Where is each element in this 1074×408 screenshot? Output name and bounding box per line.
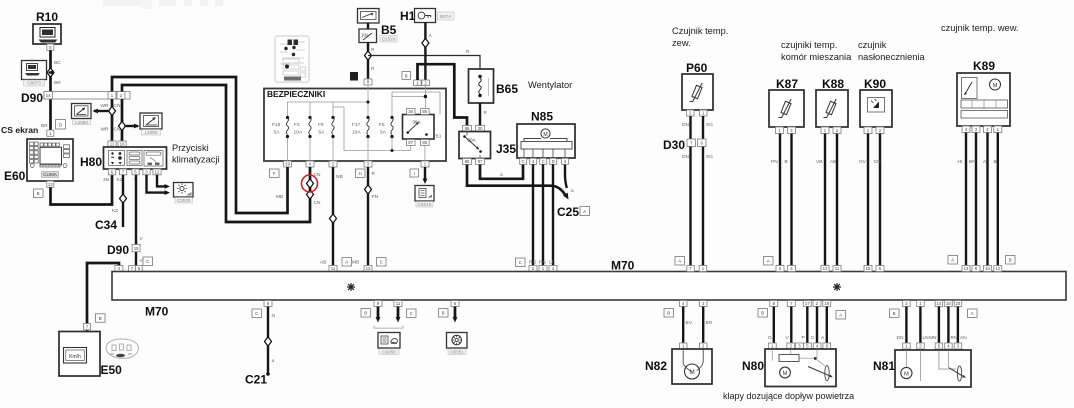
pin 7 of H80 xyxy=(119,169,126,175)
connector D90 pin 15 xyxy=(107,243,140,257)
connector H tag xyxy=(356,169,366,178)
wire branch to connector C8073 xyxy=(48,70,54,75)
svg-text:czujniki temp.: czujniki temp. xyxy=(781,40,837,50)
pin 1 of P60 xyxy=(700,110,708,116)
svg-text:87: 87 xyxy=(478,159,483,164)
connector C tag xyxy=(252,309,262,318)
connector C tag xyxy=(516,258,526,267)
svg-text:86: 86 xyxy=(465,126,470,131)
pin 5 of H80 xyxy=(132,169,139,175)
wire B65 to J35 pin30 xyxy=(479,103,481,126)
pin 8 on fuse box top xyxy=(364,79,372,85)
svg-text:GR: GR xyxy=(874,159,882,165)
svg-text:N80: N80 xyxy=(742,359,764,373)
wire fuse box pin1 to J35 pin 86 xyxy=(418,64,468,125)
wire K90 pin2 to M70 xyxy=(879,134,881,266)
wire B5 to fuse box xyxy=(367,43,369,80)
svg-text:KZ: KZ xyxy=(112,208,118,214)
wire M70 to C6051 xyxy=(453,307,458,323)
wire H80 pin12 to C2530 xyxy=(157,175,170,189)
svg-text:11: 11 xyxy=(835,266,840,271)
svg-text:BEZPIECZNIKI: BEZPIECZNIKI xyxy=(267,89,325,99)
pin 15 on M70 xyxy=(864,266,872,272)
pin 2 of N82 xyxy=(700,343,708,349)
connector B tag near H1 xyxy=(402,72,411,80)
connector C6050 xyxy=(378,333,400,355)
svg-text:C6051: C6051 xyxy=(450,349,464,354)
svg-text:A: A xyxy=(583,209,586,214)
svg-text:85: 85 xyxy=(422,140,427,145)
pin 11 on M70 xyxy=(833,266,841,272)
pin C of N85 xyxy=(540,158,547,164)
pin 30 of J35 xyxy=(476,126,485,132)
wire J35 pin87 to N85 xyxy=(480,164,523,179)
wires M70 to N81 xyxy=(905,307,907,344)
svg-text:N82: N82 xyxy=(645,359,667,373)
pin 8 under M70 for C21 xyxy=(264,301,272,307)
pin 12 on M70 xyxy=(994,266,1002,272)
pin 4 of K89 xyxy=(962,126,970,133)
svg-text:CLIMA: CLIMA xyxy=(43,172,56,177)
svg-text:D90: D90 xyxy=(21,91,43,105)
pin 4 of N85 xyxy=(530,158,537,164)
wire R10 to E60 pin 1 xyxy=(49,50,52,130)
svg-text:C: C xyxy=(380,260,383,265)
pins 1 2 5 4 3 of N81 xyxy=(903,343,911,349)
pin 1 on fuse box top xyxy=(414,80,422,86)
pins 14 16 20 under M70 for N81 xyxy=(935,301,943,307)
pin 2 under fuse box xyxy=(329,161,337,167)
connector A tag xyxy=(836,311,846,320)
connector B tag xyxy=(664,309,674,318)
battery feed B5 xyxy=(358,9,398,43)
air distribution flap motor N80 xyxy=(765,349,836,387)
svg-text:13: 13 xyxy=(366,266,371,271)
wire fuse pin4 loop to D90 pin2 xyxy=(122,85,310,222)
svg-text:10A: 10A xyxy=(294,130,303,136)
svg-text:B07A: B07A xyxy=(440,14,452,19)
svg-text:Km/h: Km/h xyxy=(69,354,81,360)
svg-text:11: 11 xyxy=(110,142,115,147)
arrowhead to C25 xyxy=(563,193,571,201)
pin 4 of N85 xyxy=(562,158,569,164)
svg-text:C1520: C1520 xyxy=(382,37,396,42)
bracket under arrows xyxy=(374,326,403,329)
red marker circle xyxy=(302,175,318,192)
svg-text:CN: CN xyxy=(314,200,321,206)
pin 2 of K88 xyxy=(833,127,841,134)
svg-text:DN: DN xyxy=(897,335,904,341)
pin 1 of N82 xyxy=(680,343,688,349)
pin 1 of K90 xyxy=(864,127,872,134)
connector B tag xyxy=(361,309,371,318)
blower relay J35 xyxy=(459,132,491,159)
svg-text:B: B xyxy=(994,159,997,165)
svg-text:PN: PN xyxy=(539,260,546,266)
junction diamond on B5 wire xyxy=(365,51,372,60)
junction diamond on H1 wire xyxy=(422,38,429,47)
pin 11 under M70 xyxy=(394,301,402,307)
wire D30 to M70 left xyxy=(689,147,691,266)
svg-text:BC: BC xyxy=(54,60,61,66)
pin 85 of J35 xyxy=(463,159,472,165)
junction diamond on C21 wire xyxy=(265,337,272,346)
wire K89 pin1 to M70 xyxy=(997,133,999,266)
fuse F9 5A xyxy=(318,116,335,138)
pin 4 under fuse box xyxy=(306,161,314,167)
pin 19 under fuse box xyxy=(284,161,292,167)
pin 1 of K87 xyxy=(776,127,784,134)
svg-text:C: C xyxy=(519,260,522,265)
svg-text:11: 11 xyxy=(396,301,401,306)
svg-text:czujnik: czujnik xyxy=(858,40,887,50)
svg-text:C: C xyxy=(146,259,149,264)
connector L4050 xyxy=(72,104,92,125)
svg-text:B5: B5 xyxy=(381,23,397,37)
svg-text:E50: E50 xyxy=(101,363,123,377)
pin 2 on M70 xyxy=(529,266,537,272)
pin 10 of H80 xyxy=(118,141,126,147)
svg-text:HI: HI xyxy=(958,159,963,165)
svg-text:C: C xyxy=(522,159,525,164)
svg-text:Wentylator: Wentylator xyxy=(528,80,572,90)
wire H1 to fuse box xyxy=(424,23,426,81)
svg-text:C25: C25 xyxy=(557,205,579,219)
svg-text:Przyciski: Przyciski xyxy=(172,143,209,153)
wire B5 junction to B65 xyxy=(368,56,480,70)
svg-text:A: A xyxy=(767,259,770,264)
svg-text:czujnik temp. wew.: czujnik temp. wew. xyxy=(941,23,1019,33)
svg-text:F18: F18 xyxy=(272,122,281,128)
svg-text:B: B xyxy=(893,311,896,316)
pins 7 5 on M70 xyxy=(129,266,143,272)
svg-text:B1: B1 xyxy=(436,134,442,140)
ignition switch H1 xyxy=(400,9,454,24)
wire M70 to C6050 left xyxy=(376,307,381,323)
connector D tag xyxy=(56,120,66,130)
svg-text:a: a xyxy=(272,359,275,364)
svg-text:F9: F9 xyxy=(318,122,324,128)
node C21 terminal dot xyxy=(266,372,270,376)
svg-text:CN: CN xyxy=(314,172,321,178)
pin 1 on M70 xyxy=(699,266,707,272)
svg-text:R: R xyxy=(466,49,470,55)
connector A tag xyxy=(675,257,685,266)
svg-text:I: I xyxy=(414,171,415,176)
wire K88 pin2 to M70 xyxy=(836,134,838,266)
svg-text:AB: AB xyxy=(830,159,836,165)
wire H80 pin5 to M70 xyxy=(135,175,137,266)
svg-text:LR: LR xyxy=(549,260,556,266)
connector C tag xyxy=(143,257,153,266)
connector B tag xyxy=(34,189,44,198)
svg-text:BN: BN xyxy=(969,159,976,165)
svg-text:BV: BV xyxy=(686,320,693,326)
pin 6 on M70 xyxy=(876,266,884,272)
svg-text:CS ekran: CS ekran xyxy=(1,125,38,135)
svg-text:E60: E60 xyxy=(4,169,26,183)
svg-text:SG: SG xyxy=(706,122,713,128)
pin 1 of E60 xyxy=(47,130,54,136)
svg-text:PN: PN xyxy=(771,159,778,165)
pins 8 7 under M70 for N80 xyxy=(770,301,778,307)
svg-text:C: C xyxy=(410,311,413,316)
svg-text:A: A xyxy=(971,311,974,316)
climate control unit M70 xyxy=(112,259,1066,319)
svg-text:MN: MN xyxy=(929,335,937,341)
fuse F18 5A xyxy=(272,116,289,138)
connector A tag at C25 xyxy=(580,207,590,216)
svg-text:VB: VB xyxy=(816,159,822,165)
svg-text:GV: GV xyxy=(859,159,867,165)
pin 1 on M70 xyxy=(539,266,547,272)
pin 2 on fuse box top xyxy=(422,80,430,86)
svg-text:14: 14 xyxy=(937,301,942,306)
pin 1 of D90 xyxy=(108,92,116,100)
pin 4 under M70 for N82 xyxy=(680,301,688,307)
svg-text:F6: F6 xyxy=(379,122,385,128)
svg-text:N81: N81 xyxy=(873,359,895,373)
connector B tag xyxy=(890,309,900,318)
svg-text:K87: K87 xyxy=(776,77,798,91)
pin 13 on M70 xyxy=(962,266,970,272)
instrument cluster E50 xyxy=(59,332,100,377)
svg-text:B: B xyxy=(405,73,408,78)
svg-text:P60: P60 xyxy=(686,61,708,75)
climate control buttons H80 xyxy=(80,147,167,169)
fuse F3 10A xyxy=(294,116,312,138)
svg-text:MB: MB xyxy=(352,260,359,266)
junction dots inside fuse box xyxy=(367,101,370,104)
svg-text:15: 15 xyxy=(134,246,139,251)
svg-text:B: B xyxy=(37,191,40,196)
svg-text:C: C xyxy=(542,159,545,164)
pin 4 on M70 xyxy=(549,266,557,272)
air mixing flap motor N81 xyxy=(895,350,971,387)
svg-text:komór mieszania: komór mieszania xyxy=(781,52,852,62)
wire branch to L4090 xyxy=(126,124,140,129)
svg-text:M: M xyxy=(783,371,788,377)
svg-text:D: D xyxy=(552,159,555,164)
svg-text:NB: NB xyxy=(336,174,343,180)
svg-text:nasłonecznienia: nasłonecznienia xyxy=(858,52,926,62)
svg-text:BR: BR xyxy=(41,123,48,129)
svg-text:D: D xyxy=(59,122,62,127)
svg-text:F3: F3 xyxy=(294,122,300,128)
connector blob next to E50 xyxy=(106,339,139,359)
svg-text:F: F xyxy=(273,171,276,176)
svg-text:DN: DN xyxy=(682,122,689,128)
svg-text:MB: MB xyxy=(276,194,283,200)
svg-text:N: N xyxy=(272,313,276,319)
wire K90 pin1 to M70 xyxy=(867,134,869,266)
black connector tag near B5 xyxy=(350,72,358,81)
svg-text:F17: F17 xyxy=(352,122,361,128)
mixing chamber temperature sensor K88 xyxy=(816,90,848,127)
connector B tag xyxy=(758,309,768,318)
display unit R10 xyxy=(33,10,61,44)
svg-text:30: 30 xyxy=(478,126,483,131)
svg-text:16: 16 xyxy=(946,301,951,306)
svg-text:10: 10 xyxy=(120,142,125,147)
pin 11 on M70 xyxy=(329,266,337,272)
pin 5 on M70 xyxy=(776,266,784,272)
junction diamond on C34 wire xyxy=(120,194,127,203)
wire K89 pin3 to M70 xyxy=(975,133,977,266)
svg-text:10A: 10A xyxy=(352,130,361,136)
connector A tag xyxy=(948,256,958,265)
fuse box BEZPIECZNIKI xyxy=(264,89,446,162)
wire N85 pinC to M70 xyxy=(542,164,544,265)
recirculation flap motor N82 xyxy=(672,349,712,384)
svg-text:85: 85 xyxy=(465,159,470,164)
pin 1 under fuse box xyxy=(421,161,429,167)
svg-text:KZ: KZ xyxy=(117,177,123,183)
svg-text:R: R xyxy=(371,66,375,72)
svg-text:A: A xyxy=(839,313,842,318)
pins 2 1 under M70 for N81 xyxy=(903,301,911,307)
pin 4 on M70 xyxy=(115,266,123,272)
junction diamond to L4050 xyxy=(109,106,116,115)
wire N85 pinD to M70 xyxy=(552,164,554,265)
pin 8 on M70 xyxy=(972,266,980,272)
junction diamond to L4090 xyxy=(119,121,126,130)
connector B tag xyxy=(439,309,449,318)
inside temperature sensor K89 xyxy=(957,73,1010,126)
svg-text:zew.: zew. xyxy=(672,38,691,48)
wire M70 to N82 pin1 xyxy=(682,307,684,344)
svg-text:14: 14 xyxy=(46,93,51,98)
pin 3 of H80 xyxy=(143,169,150,175)
svg-text:30: 30 xyxy=(408,109,413,114)
svg-text:5A: 5A xyxy=(380,130,387,136)
svg-text:Czujnik temp.: Czujnik temp. xyxy=(672,26,728,36)
connector F tag xyxy=(270,169,280,178)
svg-text:15: 15 xyxy=(866,266,871,271)
relay inside fuse box xyxy=(403,109,442,146)
heater blower resistor B65 xyxy=(469,69,494,103)
pin 3 of K89 xyxy=(972,126,980,133)
svg-text:5A: 5A xyxy=(274,130,281,136)
svg-text:3N: 3N xyxy=(103,177,110,183)
pin 7 on M70 xyxy=(687,266,695,272)
svg-text:B: B xyxy=(442,311,445,316)
internal feed bus xyxy=(288,86,441,162)
svg-text:H80: H80 xyxy=(80,155,102,169)
wire K87 pin2 to M70 xyxy=(790,134,792,266)
svg-text:13: 13 xyxy=(48,182,53,187)
pins 1 2 3 5 4 6 of N80 xyxy=(768,343,776,349)
connector L4090 xyxy=(140,113,162,135)
pin 7 of E50 xyxy=(84,324,91,330)
svg-text:WR: WR xyxy=(101,103,110,109)
pin 2 of K90 xyxy=(876,127,884,134)
pin 2 of K89 xyxy=(984,126,992,133)
pin 3 under fuse box xyxy=(364,161,372,167)
svg-text:D90: D90 xyxy=(107,243,129,257)
pin 9 under M70 xyxy=(374,301,382,307)
svg-text:L4090: L4090 xyxy=(145,130,158,135)
outside temperature sensor P60 xyxy=(682,74,713,110)
svg-text:C6050: C6050 xyxy=(382,349,396,354)
wire K87 pin1 to M70 xyxy=(779,134,781,266)
svg-text:13: 13 xyxy=(964,266,969,271)
control display unit E60 xyxy=(27,139,73,181)
sun sensor K90 xyxy=(860,90,892,127)
wire H80 pin3 to C2530 xyxy=(147,175,171,195)
wires M70 to N80 xyxy=(773,307,775,344)
svg-text:R10: R10 xyxy=(36,10,58,24)
connector C tag xyxy=(407,309,417,318)
junction diamond on pin4 wire lower xyxy=(307,190,314,199)
svg-text:CN: CN xyxy=(114,127,121,133)
svg-text:A: A xyxy=(678,259,681,264)
svg-text:M70: M70 xyxy=(611,259,635,273)
connector C6010 xyxy=(415,186,434,208)
svg-text:B: B xyxy=(1009,258,1012,263)
svg-text:RG: RG xyxy=(529,260,536,266)
star mark right xyxy=(833,283,841,291)
pin 11 of H80 xyxy=(108,141,116,147)
svg-text:C21: C21 xyxy=(245,373,267,387)
connector I tag xyxy=(410,169,419,177)
connector B tag xyxy=(1006,256,1016,265)
wire J35 pin85 to C25 xyxy=(467,165,566,197)
connector C6051 xyxy=(447,333,468,355)
svg-text:N85: N85 xyxy=(531,110,553,124)
pin 87 of J35 xyxy=(476,159,485,165)
svg-text:B: B xyxy=(667,311,670,316)
svg-text:PN: PN xyxy=(372,194,379,200)
wire fuse pin2 to M70 xyxy=(332,167,334,266)
svg-text:17: 17 xyxy=(805,301,810,306)
pin 10 on M70 xyxy=(984,266,992,272)
mixing chamber temperature sensor K87 xyxy=(769,90,804,127)
pin 2 of P60 xyxy=(687,110,695,116)
wire fuse pin1 to C6010 xyxy=(423,167,428,184)
svg-text:RN: RN xyxy=(951,335,958,341)
fuse F6 5A xyxy=(379,116,394,138)
svg-text:P: P xyxy=(802,335,805,341)
wire K88 pin1 to M70 xyxy=(824,134,826,266)
fuse F17 10A xyxy=(352,116,370,138)
svg-text:18: 18 xyxy=(824,301,829,306)
svg-text:klapy dozujące dopływ powietrz: klapy dozujące dopływ powietrza xyxy=(723,391,854,401)
svg-text:M: M xyxy=(904,372,909,378)
wire P60 pin1 to D30 xyxy=(702,116,704,139)
svg-text:M: M xyxy=(993,83,998,89)
pin 86 of J35 xyxy=(463,126,472,132)
connector C2530 xyxy=(174,183,194,204)
connector A tag xyxy=(968,309,978,318)
svg-text:C: C xyxy=(811,335,815,341)
junction diamond on pin3 wire xyxy=(365,185,372,194)
svg-text:BR: BR xyxy=(54,80,61,86)
svg-text:G: G xyxy=(768,335,772,341)
wire D90 pin2 to H80 pin10 xyxy=(121,99,124,147)
svg-text:a: a xyxy=(500,173,503,178)
connector C8073 xyxy=(22,61,47,87)
svg-text:J35: J35 xyxy=(496,142,516,156)
svg-text:R: R xyxy=(372,171,376,177)
wire D90 pin1 to H80 pin11 xyxy=(111,99,114,147)
wire K89 pin2 to M70 xyxy=(986,133,988,266)
connector A tag xyxy=(342,258,352,267)
svg-text:M70: M70 xyxy=(145,305,169,319)
wire N85 right pin to C25 xyxy=(565,164,567,188)
junction diamond on R10 wire xyxy=(47,68,54,77)
svg-text:86: 86 xyxy=(422,109,427,114)
